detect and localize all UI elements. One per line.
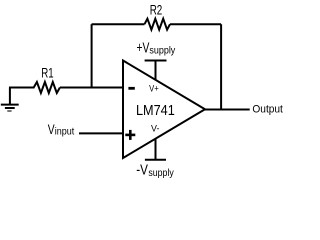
resistor R1 [34,82,60,93]
svg-text:-V: -V [136,161,148,178]
op-amp inverting input marker - [128,87,134,90]
svg-text:input: input [55,127,75,138]
wire top horizontal to R2 [92,23,145,25]
svg-text:V-: V- [151,123,159,133]
ground [1,88,19,112]
svg-text:+V: +V [137,40,150,57]
resistor R2 [145,19,171,30]
power +Vsupply [145,60,167,62]
svg-text:V+: V+ [149,83,159,93]
wire right vertical feedback to output [220,24,222,109]
svg-text:LM741: LM741 [136,102,175,119]
wire feedback left vertical [91,24,93,87]
wire Vinput to op-amp non-inverting input [79,132,123,134]
wire -V supply vertical [155,139,157,160]
svg-text:supply: supply [149,46,175,57]
wire R1 to op-amp inverting input [60,87,123,89]
wire R2 to right vertical [170,23,221,25]
op-amp U1 LM741 triangle [123,61,205,159]
svg-text:supply: supply [148,168,174,178]
svg-text:Output: Output [252,103,283,115]
svg-text:R1: R1 [41,66,53,81]
svg-text:R2: R2 [150,2,163,17]
wire +V supply vertical [155,61,157,80]
op-amp non-inverting input marker + [125,130,135,140]
power -Vsupply [145,159,166,161]
wire ground to R1 [9,87,35,89]
wire output [205,109,250,111]
